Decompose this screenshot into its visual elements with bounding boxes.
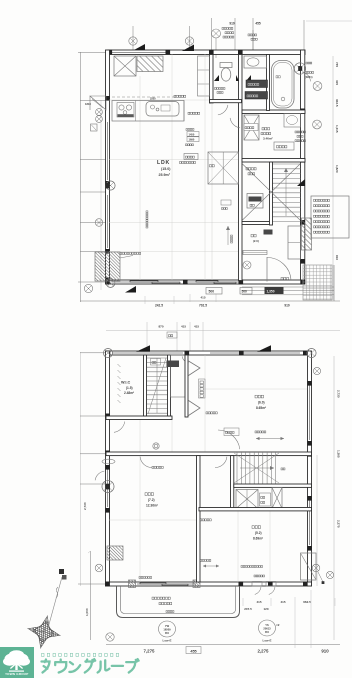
flag bottomleft <box>125 286 136 293</box>
stair side tag <box>221 200 231 205</box>
dim bottom ticks <box>144 296 146 304</box>
svg-text:1,365: 1,365 <box>337 450 341 458</box>
hall closet <box>247 194 263 209</box>
svg-text:3.46m²: 3.46m² <box>263 136 273 140</box>
kitchen back door <box>90 96 106 110</box>
north label <box>59 569 64 574</box>
LDK rotated note <box>146 211 148 228</box>
svg-text:8.69m²: 8.69m² <box>253 537 263 541</box>
floor1 interior module lines <box>139 76 141 280</box>
porch steps <box>242 286 334 288</box>
stairs F1 X <box>243 164 301 220</box>
floor2 top wall <box>106 351 308 355</box>
tag box 500b <box>240 288 252 295</box>
svg-text:W.I.C: W.I.C <box>121 381 131 385</box>
floor1 wall WC-bath bottom <box>242 110 305 114</box>
floor2 top wall glazing <box>112 352 183 354</box>
entrance flag <box>297 179 305 186</box>
underfloor storage X-box <box>244 115 259 140</box>
bath casement arc <box>302 72 310 81</box>
floor2 right corner box <box>301 553 317 580</box>
floor2 right wall posts <box>307 381 312 386</box>
svg-text:302.5: 302.5 <box>335 99 339 107</box>
stairs F2 arrow <box>240 467 274 469</box>
stairs F2 upper rail <box>156 358 158 413</box>
svg-text:500: 500 <box>242 290 248 294</box>
WIC right wall <box>144 355 147 416</box>
flag top-2 <box>182 45 194 52</box>
floor1 wall washroom bottom <box>242 159 305 163</box>
svg-text:25.9m²: 25.9m² <box>159 173 171 177</box>
bath label <box>276 76 278 78</box>
spec tag oval 1 <box>159 621 176 637</box>
svg-text:1450: 1450 <box>189 132 195 136</box>
svg-text:Low-E: Low-E <box>263 639 272 643</box>
svg-text:455: 455 <box>190 649 196 653</box>
kitchen stove <box>117 103 134 118</box>
svg-text:(6.0): (6.0) <box>258 401 265 405</box>
floor1 left wall <box>106 50 110 284</box>
label room2 <box>252 526 254 529</box>
floor1 grid circle top-3 <box>212 29 221 38</box>
toilet tank <box>220 63 232 68</box>
closet X-box F2b <box>272 488 282 509</box>
floor1 grid circle bottomleft <box>84 284 92 292</box>
AC unit box F2 <box>107 546 123 560</box>
logo katakana タウングループ <box>42 660 50 673</box>
logo slogan <box>42 653 45 656</box>
label hanging cupboard <box>174 95 176 97</box>
stairs F1 arrow <box>285 168 287 216</box>
floor1 grid circle top-1 <box>129 37 137 45</box>
floor1 grid circle left-3 <box>106 181 115 190</box>
AC unit box <box>95 252 120 281</box>
hall west wall <box>197 456 201 582</box>
svg-text:2,275: 2,275 <box>337 520 341 528</box>
tag box F2 top <box>167 332 177 338</box>
label genkan <box>251 234 253 237</box>
closets bottom wall <box>199 508 312 511</box>
label room3 <box>255 395 257 398</box>
kitchen counter lines <box>135 101 137 122</box>
closet X-box F2a <box>236 490 258 509</box>
floor1 grid circle left-5 <box>106 279 115 288</box>
stairwell left wall <box>231 456 234 510</box>
floor1 top wall posts <box>108 50 113 55</box>
F2 circle r1 <box>313 367 320 374</box>
label porch <box>281 277 283 279</box>
entrance door leaf <box>266 257 268 282</box>
overlay circle f2 tr <box>307 348 316 357</box>
tag box 500 <box>206 288 222 295</box>
floor1 grid circle right-2 <box>313 82 322 91</box>
floor1 right wall <box>301 50 305 284</box>
left small box <box>91 124 98 131</box>
svg-text:415: 415 <box>256 600 261 604</box>
svg-text:(5.2): (5.2) <box>255 531 262 535</box>
floor1 wall LDK/toilet <box>210 55 214 104</box>
stair right wall <box>168 355 171 416</box>
floor1 top wall glazing <box>112 51 166 53</box>
porch tile hatch <box>303 265 332 300</box>
corridor door arcs <box>140 457 152 468</box>
svg-text:1818: 1818 <box>85 102 91 106</box>
label magnet F2a <box>152 466 154 468</box>
north star <box>24 612 66 654</box>
svg-text:500: 500 <box>209 290 215 294</box>
svg-text:910: 910 <box>321 649 329 654</box>
svg-text:LDK: LDK <box>157 160 170 166</box>
overlay circle f1 topright <box>294 63 305 74</box>
svg-text:870: 870 <box>158 325 163 329</box>
toilet note <box>215 88 217 90</box>
stairs top tag <box>151 359 161 366</box>
hanging cupboard dashed <box>112 96 176 98</box>
room3 left wall <box>185 355 188 417</box>
stairs F1 steps <box>273 163 301 165</box>
logo green square <box>0 647 34 678</box>
note top-center <box>222 27 224 29</box>
tag right mid2 <box>224 428 239 436</box>
svg-text:702.5: 702.5 <box>199 304 207 308</box>
floor2 interior module lines <box>139 419 141 582</box>
F2 door room3 <box>182 356 189 363</box>
vanity <box>284 114 301 128</box>
svg-text:1690: 1690 <box>189 138 195 142</box>
svg-text:207.5: 207.5 <box>244 607 252 611</box>
sliding arrow note <box>200 559 202 561</box>
kitchen counter <box>112 101 184 122</box>
floor2 bottom hatch posts <box>129 580 136 588</box>
flag F2 top-2 <box>257 345 271 352</box>
bath vent label box2 <box>245 92 268 100</box>
entrance door arc <box>267 257 291 280</box>
label magnet F2b <box>206 412 208 414</box>
AC label <box>120 252 122 254</box>
note top-right <box>305 71 307 73</box>
svg-text:2,730: 2,730 <box>337 390 341 398</box>
tag right mid rotated <box>199 379 206 398</box>
floor1 left wall glazing <box>107 122 109 180</box>
floor2 right wall glazing <box>309 385 311 440</box>
bath vent label box <box>246 80 268 88</box>
floor1 bottom wall posts <box>105 280 110 285</box>
floor1 right wall posts <box>300 109 305 114</box>
svg-text:745: 745 <box>335 62 339 67</box>
floor2 bottom window big <box>137 583 196 585</box>
svg-text:1,820: 1,820 <box>335 165 339 173</box>
casement windows <box>252 582 262 587</box>
small room F2 <box>171 355 186 397</box>
svg-text:8.65m²: 8.65m² <box>256 406 266 410</box>
F2 circle bl <box>95 564 103 572</box>
WC flag triangle <box>246 75 251 81</box>
north line <box>48 577 62 628</box>
svg-text:20613: 20613 <box>263 626 271 630</box>
note right mid <box>295 131 297 133</box>
svg-text:(1.5): (1.5) <box>126 386 133 390</box>
floor1 door washroom <box>230 118 240 128</box>
svg-text:(15.0): (15.0) <box>161 167 171 171</box>
svg-text:120: 120 <box>263 607 268 611</box>
window note left <box>139 577 141 579</box>
bathtub <box>272 61 295 109</box>
closet tag F2 <box>260 493 271 506</box>
floor2 right wall <box>308 351 312 586</box>
vanity counter <box>244 56 267 68</box>
room3 closet chevrons <box>189 361 201 376</box>
floor1 bottom window 1 <box>112 281 180 283</box>
shoe cabinet <box>288 226 301 259</box>
louver direction note <box>255 431 257 433</box>
hall label <box>246 168 248 170</box>
corridor circle tag <box>153 443 159 449</box>
balcony note <box>166 611 168 613</box>
floor1 cupboard <box>198 56 210 96</box>
floor1 wall LDK/east column <box>239 55 243 281</box>
floor2 left wall glazing <box>107 468 109 507</box>
floor1 top extension lines <box>132 26 134 50</box>
svg-text:415: 415 <box>335 80 339 85</box>
window note right <box>241 566 243 568</box>
floor2 top wall posts <box>106 351 111 356</box>
stairs F2 lower diag <box>234 453 279 483</box>
kitchen tag text <box>180 161 182 163</box>
floor1 bottom wall <box>106 280 305 284</box>
svg-text:YW: YW <box>165 624 170 628</box>
svg-text:TOWN GROUP: TOWN GROUP <box>5 672 28 676</box>
floor2 top extension ticks <box>146 322 148 351</box>
label balcony <box>152 597 154 599</box>
floor2 left wall posts <box>105 414 110 419</box>
svg-text:910: 910 <box>229 22 235 26</box>
closet X-box <box>114 56 136 76</box>
svg-text:242.5: 242.5 <box>155 304 163 308</box>
floor1 grid circle top-2 <box>185 37 193 45</box>
floor2 left wall <box>106 351 110 586</box>
svg-text:YS: YS <box>265 623 269 627</box>
svg-text:FIX: FIX <box>165 631 169 635</box>
svg-text:1,350: 1,350 <box>267 290 275 294</box>
tag box dark <box>265 287 284 294</box>
label magnet F2c <box>200 519 202 521</box>
floor1 right extension lines <box>332 56 334 300</box>
entrance step band <box>243 251 267 255</box>
WIC hangers <box>118 364 121 367</box>
floor1 grid circle left-4 <box>95 219 103 227</box>
flag top-1 <box>134 44 145 50</box>
floor1 grid circle left-1 <box>96 109 103 116</box>
floor1 grid circle left-2 <box>96 116 103 123</box>
floor1 grid circle topright <box>294 63 305 74</box>
svg-text:415: 415 <box>200 296 205 300</box>
floor2 dim grid lines <box>80 352 82 586</box>
svg-text:455: 455 <box>255 22 261 26</box>
balcony outer <box>117 586 240 618</box>
logo tree <box>3 650 30 671</box>
svg-text:910: 910 <box>335 255 339 260</box>
floor1 bottom window 2 <box>188 281 242 283</box>
floor1 left wall posts <box>105 96 110 101</box>
WIC bottom wall <box>106 416 172 420</box>
svg-text:2550: 2550 <box>150 98 156 101</box>
stairs F2 lower steps <box>236 452 238 484</box>
overlay circle f1 left3 <box>106 181 115 190</box>
svg-text:415: 415 <box>194 325 199 329</box>
floor1 dim grid verticals <box>80 52 82 302</box>
svg-text:(7.2): (7.2) <box>148 498 155 502</box>
balcony inner <box>121 586 236 614</box>
svg-text:7,275: 7,275 <box>144 649 156 654</box>
svg-text:2.48m²: 2.48m² <box>124 391 134 395</box>
washer pan box <box>274 142 294 150</box>
svg-text:415: 415 <box>181 325 186 329</box>
kitchen tag box <box>184 154 198 160</box>
overlay circle f2 leftmid <box>102 481 114 493</box>
svg-text:×2: ×2 <box>276 623 280 627</box>
floor1 top wall <box>108 50 305 55</box>
spec tag oval 2 <box>259 620 276 636</box>
toilet flag <box>214 75 219 81</box>
F2 circle br <box>312 564 320 572</box>
porch diag strip <box>302 218 312 250</box>
svg-text:2,730: 2,730 <box>83 502 87 510</box>
svg-text:16509: 16509 <box>163 627 171 631</box>
svg-text:Low-E: Low-E <box>163 639 172 643</box>
toilet bowl <box>221 68 231 81</box>
washroom label <box>262 127 264 129</box>
floor1 wall WC/bath divider <box>267 55 270 111</box>
floor1 door toilet <box>218 105 228 115</box>
F2 circle bottom <box>106 633 114 641</box>
svg-text:910: 910 <box>284 304 290 308</box>
spec box <box>311 196 349 238</box>
flag F2 top-1 <box>136 345 150 352</box>
stairs bottom wall <box>234 484 312 487</box>
floor1 dim grid horizontals left <box>78 51 106 53</box>
LDK vent arrow <box>227 226 229 245</box>
corridor-room3 door <box>218 430 240 449</box>
svg-text:(2.0): (2.0) <box>253 239 259 243</box>
svg-text:415: 415 <box>280 600 285 604</box>
closet diagonal box <box>137 56 163 72</box>
svg-text:1,415: 1,415 <box>335 125 339 133</box>
svg-text:1,000: 1,000 <box>85 608 89 616</box>
floor2 bottom posts <box>105 582 110 587</box>
F2 circle left mid <box>102 481 114 493</box>
label magnet F1 <box>188 112 190 114</box>
entrance grid circle <box>243 261 251 269</box>
svg-text:FIX: FIX <box>265 630 269 634</box>
kitchen sink <box>146 102 179 117</box>
overlay circle f2 tl <box>103 348 112 357</box>
genkan dark tag <box>264 230 273 235</box>
oshiire closet <box>208 152 239 184</box>
LDK tag boxes <box>187 132 199 137</box>
floor1 wall toilet bottom <box>210 100 242 103</box>
floor1 wall hall/entrance <box>242 222 271 225</box>
svg-text:12.36m²: 12.36m² <box>146 504 158 508</box>
F2 circle tl <box>103 348 112 357</box>
stairs F1 wall <box>270 162 273 225</box>
svg-text:662.5: 662.5 <box>303 600 311 604</box>
corridor wall <box>106 452 312 456</box>
dark tag F2 <box>167 361 180 368</box>
svg-text:2,275: 2,275 <box>258 649 270 654</box>
F2 circle tr <box>307 348 316 357</box>
label room1 <box>145 493 147 496</box>
F2 circle br2 <box>326 571 333 578</box>
floor2 bottom wall <box>106 582 312 586</box>
overlay circle f1 left5 <box>106 279 115 288</box>
stairs F2 upper steps <box>147 357 168 359</box>
